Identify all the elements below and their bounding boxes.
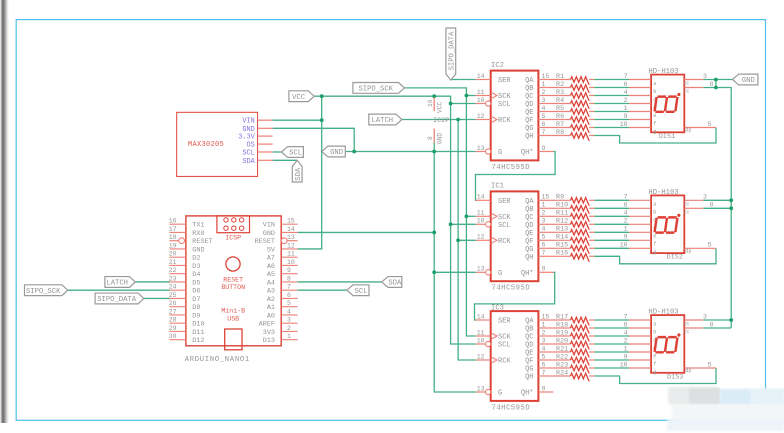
svg-text:A5: A5: [267, 271, 275, 279]
svg-text:USB: USB: [227, 316, 239, 323]
svg-text:D8: D8: [192, 304, 200, 312]
svg-text:10: 10: [477, 218, 485, 225]
svg-text:D2: D2: [192, 255, 200, 263]
svg-text:cc: cc: [683, 210, 689, 216]
svg-text:DIS3: DIS3: [667, 373, 683, 381]
svg-text:A6: A6: [267, 263, 275, 271]
svg-text:QF: QF: [525, 117, 533, 125]
svg-text:9: 9: [542, 266, 546, 273]
svg-text:D9: D9: [192, 312, 200, 320]
svg-text:VIN: VIN: [263, 222, 275, 230]
svg-text:27: 27: [169, 308, 177, 315]
svg-text:QH: QH: [525, 254, 533, 262]
svg-text:4: 4: [287, 308, 291, 315]
svg-text:ARDUINO_NANO1: ARDUINO_NANO1: [185, 356, 250, 364]
svg-text:3: 3: [542, 97, 546, 104]
svg-text:SER: SER: [498, 198, 511, 206]
svg-text:13: 13: [477, 266, 485, 273]
svg-text:QH: QH: [525, 374, 533, 382]
svg-text:6: 6: [624, 81, 628, 88]
svg-text:SER: SER: [498, 318, 511, 326]
svg-text:a: a: [653, 81, 656, 87]
svg-text:g: g: [653, 250, 656, 256]
svg-text:1: 1: [542, 202, 546, 209]
svg-text:3: 3: [287, 317, 291, 324]
svg-text:QD: QD: [525, 222, 533, 230]
svg-text:29: 29: [169, 325, 177, 332]
svg-text:AREF: AREF: [259, 321, 275, 329]
svg-text:7: 7: [624, 313, 628, 320]
svg-text:11: 11: [477, 210, 485, 217]
svg-text:SER: SER: [498, 77, 511, 85]
svg-text:5: 5: [708, 361, 712, 368]
svg-text:GND: GND: [742, 77, 755, 85]
svg-text:24: 24: [169, 284, 177, 291]
svg-text:R14: R14: [556, 234, 568, 242]
svg-text:A3: A3: [267, 288, 275, 296]
svg-text:SIPO_SCK: SIPO_SCK: [358, 86, 393, 94]
svg-text:5: 5: [542, 234, 546, 241]
svg-text:8: 8: [287, 275, 291, 282]
svg-text:7: 7: [542, 129, 546, 136]
svg-text:SCL: SCL: [498, 101, 511, 109]
svg-text:9: 9: [624, 234, 628, 241]
svg-text:12: 12: [477, 113, 485, 120]
svg-text:2: 2: [542, 89, 546, 96]
svg-text:5: 5: [542, 113, 546, 120]
svg-text:QC: QC: [525, 334, 533, 342]
svg-text:3: 3: [703, 313, 707, 320]
svg-text:RESET: RESET: [255, 238, 275, 246]
svg-text:f: f: [653, 121, 656, 127]
svg-text:a: a: [653, 202, 656, 208]
svg-text:R13: R13: [556, 226, 568, 234]
svg-text:BUTTON: BUTTON: [221, 284, 245, 291]
svg-text:18: 18: [169, 234, 177, 241]
svg-text:R15: R15: [556, 242, 568, 250]
svg-text:14: 14: [477, 194, 485, 201]
svg-text:OS: OS: [247, 142, 255, 150]
svg-text:19: 19: [169, 242, 177, 249]
svg-text:2: 2: [542, 210, 546, 217]
svg-text:25: 25: [169, 292, 177, 299]
svg-text:dp: dp: [685, 128, 691, 134]
svg-text:HD-H103: HD-H103: [648, 309, 678, 317]
svg-text:QG: QG: [525, 125, 533, 133]
svg-text:15: 15: [542, 313, 550, 320]
svg-text:SIPO_DATA: SIPO_DATA: [448, 31, 456, 71]
svg-text:VIN: VIN: [242, 118, 254, 126]
svg-text:e: e: [653, 234, 656, 240]
svg-text:7: 7: [287, 284, 291, 291]
svg-text:D4: D4: [192, 271, 200, 279]
svg-text:R10: R10: [556, 202, 568, 210]
svg-text:10: 10: [620, 242, 628, 249]
svg-text:SCK: SCK: [498, 93, 511, 101]
svg-text:16: 16: [427, 99, 434, 107]
svg-text:GND: GND: [192, 246, 204, 254]
svg-text:12: 12: [477, 234, 485, 241]
svg-text:VCC: VCC: [437, 102, 444, 113]
svg-text:IC3: IC3: [491, 305, 504, 313]
svg-text:D5: D5: [192, 279, 200, 287]
svg-text:2: 2: [624, 97, 628, 104]
svg-text:dp: dp: [685, 248, 691, 254]
svg-text:QH: QH: [525, 133, 533, 141]
svg-text:R2: R2: [556, 81, 564, 89]
svg-text:VCC: VCC: [292, 94, 306, 102]
svg-text:R3: R3: [556, 89, 564, 97]
svg-text:4: 4: [624, 329, 628, 336]
svg-text:A1: A1: [267, 304, 275, 312]
svg-text:5: 5: [708, 121, 712, 128]
svg-text:12: 12: [287, 242, 295, 249]
svg-text:g: g: [653, 369, 656, 375]
svg-text:R18: R18: [556, 321, 568, 329]
svg-text:SCK: SCK: [498, 334, 511, 342]
svg-text:QB: QB: [525, 85, 533, 93]
svg-text:HD-H103: HD-H103: [648, 189, 678, 197]
svg-text:LATCH: LATCH: [372, 117, 394, 125]
svg-text:SIPO_SCK: SIPO_SCK: [26, 288, 61, 296]
svg-text:7: 7: [624, 73, 628, 80]
svg-text:DIS1: DIS1: [659, 133, 675, 141]
svg-text:74HC595D: 74HC595D: [492, 285, 531, 293]
svg-text:e: e: [653, 113, 656, 119]
svg-text:QB: QB: [525, 326, 533, 334]
svg-text:QD: QD: [525, 101, 533, 109]
svg-text:QH*: QH*: [521, 270, 534, 278]
svg-text:SDA: SDA: [295, 167, 303, 181]
svg-text:8: 8: [710, 81, 714, 88]
svg-text:RX0: RX0: [192, 230, 204, 238]
svg-text:4: 4: [624, 89, 628, 96]
svg-text:R21: R21: [556, 345, 568, 353]
svg-text:3: 3: [703, 194, 707, 201]
svg-text:b: b: [653, 329, 656, 335]
svg-text:8: 8: [710, 321, 714, 328]
svg-text:R23: R23: [556, 361, 568, 369]
svg-text:cc: cc: [683, 81, 689, 87]
svg-text:8: 8: [710, 202, 714, 209]
svg-text:14: 14: [477, 313, 485, 320]
svg-text:9: 9: [624, 353, 628, 360]
svg-text:D3: D3: [192, 263, 200, 271]
svg-text:15: 15: [287, 218, 295, 225]
svg-text:30: 30: [169, 333, 177, 340]
svg-text:f: f: [653, 242, 656, 248]
svg-text:QB: QB: [525, 206, 533, 214]
svg-text:R5: R5: [556, 105, 564, 113]
svg-text:D6: D6: [192, 288, 200, 296]
svg-text:1: 1: [542, 321, 546, 328]
svg-text:QH*: QH*: [521, 390, 534, 398]
svg-text:QD: QD: [525, 342, 533, 350]
svg-text:QF: QF: [525, 238, 533, 246]
svg-text:10: 10: [620, 121, 628, 128]
svg-text:2: 2: [287, 325, 291, 332]
svg-text:R19: R19: [556, 329, 568, 337]
svg-text:5V: 5V: [267, 246, 276, 254]
svg-text:R7: R7: [556, 121, 564, 129]
svg-text:1: 1: [542, 81, 546, 88]
svg-text:10: 10: [620, 361, 628, 368]
svg-text:11: 11: [477, 329, 485, 336]
svg-text:12: 12: [477, 353, 485, 360]
svg-text:QE: QE: [525, 350, 533, 358]
svg-text:10: 10: [477, 337, 485, 344]
svg-text:3.3V: 3.3V: [238, 134, 255, 142]
svg-text:IC2: IC2: [491, 62, 504, 70]
svg-text:2: 2: [542, 329, 546, 336]
svg-text:SCL: SCL: [289, 150, 302, 158]
svg-text:1: 1: [624, 226, 628, 233]
svg-text:6: 6: [542, 121, 546, 128]
svg-text:RESET: RESET: [223, 276, 243, 283]
svg-text:R12: R12: [556, 218, 568, 226]
svg-text:15: 15: [542, 73, 550, 80]
svg-text:QE: QE: [525, 230, 533, 238]
svg-text:1: 1: [624, 105, 628, 112]
svg-text:R16: R16: [556, 250, 568, 258]
svg-text:5: 5: [542, 353, 546, 360]
svg-text:b: b: [653, 210, 656, 216]
svg-text:6: 6: [542, 242, 546, 249]
svg-text:QG: QG: [525, 246, 533, 254]
svg-text:SCL: SCL: [498, 222, 511, 230]
svg-text:11: 11: [287, 251, 295, 258]
svg-text:GND: GND: [263, 230, 275, 238]
svg-text:R22: R22: [556, 353, 568, 361]
svg-text:QC: QC: [525, 93, 533, 101]
svg-text:cc: cc: [683, 89, 689, 95]
svg-text:IC1: IC1: [491, 183, 504, 191]
svg-text:9: 9: [542, 385, 546, 392]
svg-text:b: b: [653, 89, 656, 95]
svg-text:5: 5: [708, 242, 712, 249]
svg-text:ICSP: ICSP: [225, 235, 241, 242]
svg-text:3V3: 3V3: [263, 329, 275, 337]
svg-text:22: 22: [169, 267, 177, 274]
svg-text:QA: QA: [525, 77, 534, 85]
svg-text:D12: D12: [192, 337, 204, 345]
svg-text:dp: dp: [685, 368, 691, 374]
svg-text:cc: cc: [683, 321, 689, 327]
svg-text:RCK: RCK: [498, 117, 511, 125]
svg-text:SCL: SCL: [355, 288, 368, 296]
svg-text:cc: cc: [683, 202, 689, 208]
svg-text:10: 10: [477, 97, 485, 104]
svg-text:QA: QA: [525, 318, 534, 326]
svg-text:MAX30205: MAX30205: [188, 141, 224, 149]
svg-text:R17: R17: [556, 313, 568, 321]
svg-text:9: 9: [287, 267, 291, 274]
svg-text:GND: GND: [437, 133, 444, 144]
svg-text:26: 26: [169, 300, 177, 307]
svg-text:RCK: RCK: [498, 238, 511, 246]
svg-text:28: 28: [169, 317, 177, 324]
svg-text:D10: D10: [192, 321, 204, 329]
svg-text:A4: A4: [267, 279, 275, 287]
svg-text:a: a: [653, 321, 656, 327]
svg-text:16: 16: [169, 218, 177, 225]
svg-text:3: 3: [542, 218, 546, 225]
svg-text:4: 4: [542, 345, 546, 352]
svg-text:6: 6: [287, 292, 291, 299]
svg-text:7: 7: [624, 194, 628, 201]
svg-text:23: 23: [169, 275, 177, 282]
svg-text:13: 13: [477, 145, 485, 152]
svg-text:6: 6: [542, 361, 546, 368]
svg-text:G: G: [498, 149, 502, 157]
svg-text:QH*: QH*: [521, 149, 534, 157]
svg-text:RESET: RESET: [192, 238, 212, 246]
svg-text:14: 14: [287, 226, 295, 233]
svg-text:HD-H103: HD-H103: [648, 68, 678, 76]
svg-text:QF: QF: [525, 358, 533, 366]
svg-text:A0: A0: [267, 312, 275, 320]
svg-text:7: 7: [542, 369, 546, 376]
svg-text:14: 14: [477, 73, 485, 80]
svg-text:SCL: SCL: [498, 342, 511, 350]
svg-text:21: 21: [169, 259, 177, 266]
svg-text:D11: D11: [192, 329, 204, 337]
svg-text:R11: R11: [556, 210, 568, 218]
svg-text:4: 4: [624, 210, 628, 217]
svg-text:Mini-B: Mini-B: [221, 308, 245, 315]
svg-text:74HC595D: 74HC595D: [492, 164, 531, 172]
svg-text:LATCH: LATCH: [106, 280, 128, 288]
svg-text:1: 1: [287, 333, 291, 340]
svg-text:GND: GND: [330, 149, 343, 157]
svg-text:20: 20: [169, 251, 177, 258]
svg-text:R4: R4: [556, 97, 564, 105]
svg-text:7: 7: [542, 250, 546, 257]
svg-text:8: 8: [427, 136, 434, 140]
svg-text:2: 2: [624, 337, 628, 344]
svg-text:R9: R9: [556, 194, 564, 202]
svg-text:QA: QA: [525, 198, 534, 206]
svg-text:SIPO_DATA: SIPO_DATA: [97, 296, 137, 304]
svg-text:QC: QC: [525, 214, 533, 222]
svg-text:R8: R8: [556, 129, 564, 137]
svg-text:SCL: SCL: [242, 150, 254, 158]
svg-text:1: 1: [624, 345, 628, 352]
svg-text:17: 17: [169, 226, 177, 233]
svg-text:GND: GND: [242, 126, 254, 134]
svg-text:G: G: [498, 270, 502, 278]
svg-text:10: 10: [287, 259, 295, 266]
svg-text:4: 4: [542, 226, 546, 233]
svg-text:IC2P: IC2P: [433, 117, 449, 125]
svg-text:g: g: [653, 129, 656, 135]
svg-text:R6: R6: [556, 113, 564, 121]
svg-text:QG: QG: [525, 366, 533, 374]
svg-text:4: 4: [542, 105, 546, 112]
svg-text:cc: cc: [683, 329, 689, 335]
svg-text:QE: QE: [525, 109, 533, 117]
svg-text:3: 3: [703, 73, 707, 80]
svg-text:6: 6: [624, 202, 628, 209]
svg-text:2: 2: [624, 218, 628, 225]
svg-text:f: f: [653, 361, 656, 367]
svg-text:11: 11: [477, 89, 485, 96]
svg-text:SDA: SDA: [242, 158, 255, 166]
svg-text:TX1: TX1: [192, 222, 204, 230]
svg-text:SCK: SCK: [498, 214, 511, 222]
svg-text:A7: A7: [267, 255, 275, 263]
svg-text:5: 5: [287, 300, 291, 307]
svg-text:6: 6: [624, 321, 628, 328]
svg-text:G: G: [498, 390, 502, 398]
svg-text:3: 3: [542, 337, 546, 344]
svg-text:D13: D13: [263, 337, 275, 345]
svg-text:A2: A2: [267, 296, 275, 304]
svg-text:74HC595D: 74HC595D: [492, 404, 531, 412]
svg-text:RCK: RCK: [498, 358, 511, 366]
svg-text:DIS2: DIS2: [667, 254, 683, 262]
svg-text:15: 15: [542, 194, 550, 201]
svg-text:R20: R20: [556, 337, 568, 345]
svg-text:13: 13: [477, 385, 485, 392]
svg-text:e: e: [653, 353, 656, 359]
svg-text:R1: R1: [556, 73, 564, 81]
svg-text:R24: R24: [556, 369, 568, 377]
svg-text:SDA: SDA: [388, 280, 402, 288]
svg-text:13: 13: [287, 234, 295, 241]
svg-text:D7: D7: [192, 296, 200, 304]
svg-text:9: 9: [542, 145, 546, 152]
svg-text:9: 9: [624, 113, 628, 120]
